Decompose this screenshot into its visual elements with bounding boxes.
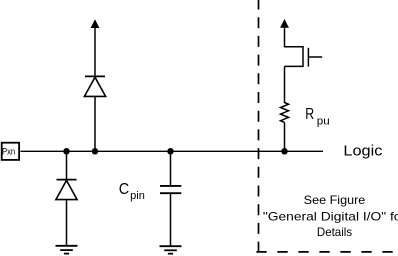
wire: main horizontal net from Pxn to Logic — [20, 150, 323, 152]
svg-text:C: C — [119, 181, 129, 198]
wire: Cpin to ground — [170, 194, 172, 246]
capacitor Cpin (two plates) — [160, 186, 181, 193]
diode: clamp to GND (cathode bar + triangle) — [56, 180, 77, 200]
resistor Rpu (zigzag) — [281, 103, 289, 123]
svg-text:Pxn: Pxn — [2, 146, 15, 156]
pin box Pxn — [2, 143, 19, 160]
junction: Cpin tap — [167, 148, 174, 155]
wire: upper diode to net — [94, 96, 96, 151]
diode: clamp to VCC (cathode bar + triangle) — [84, 76, 105, 96]
transistor gate lead — [308, 56, 322, 58]
transistor: pull-up pMOS channel path — [285, 47, 304, 67]
junction: upper diode tap — [92, 148, 99, 155]
junction: lower diode tap — [63, 148, 70, 155]
svg-text:pu: pu — [317, 115, 330, 127]
power arrow (VCC) above pull-up transistor — [280, 19, 289, 47]
label Rpu — [305, 106, 329, 128]
svg-text:pin: pin — [130, 190, 145, 202]
wire: net down to Cpin — [170, 151, 172, 185]
transistor gate bar — [307, 48, 309, 67]
svg-text:"General Digital I/O" for: "General Digital I/O" for — [263, 209, 398, 223]
junction: Rpu tap — [281, 148, 288, 155]
ground (below lower diode) — [56, 246, 78, 254]
svg-text:Logic: Logic — [343, 142, 383, 159]
note text: see figure reference — [263, 193, 398, 239]
dashed boundary (vertical + bottom horizontal) — [256, 0, 398, 253]
wire: transistor to resistor — [284, 66, 286, 103]
wire: lower diode to ground — [66, 200, 68, 246]
wire: resistor to net — [284, 122, 286, 151]
svg-text:See Figure: See Figure — [304, 193, 366, 207]
wire: net down to lower diode — [66, 151, 68, 179]
label Cpin — [119, 181, 145, 202]
ground (below Cpin) — [160, 246, 182, 254]
svg-text:Details: Details — [317, 225, 352, 239]
power arrow (VCC) above upper diode — [91, 19, 100, 75]
svg-text:R: R — [305, 106, 314, 123]
